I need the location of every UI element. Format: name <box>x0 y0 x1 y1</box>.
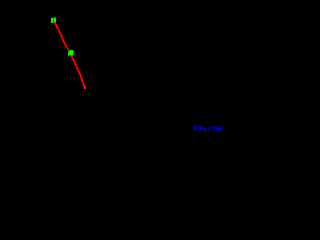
green marker 1 dark stripe <box>53 19 54 22</box>
crossbar bright left <box>200 128 203 129</box>
glyph f flag <box>199 126 200 127</box>
red endpoint blob <box>84 86 86 89</box>
tail dot <box>221 129 222 132</box>
green marker 2 <box>68 50 74 56</box>
blue caption <box>193 125 223 131</box>
bold blob <box>204 129 206 131</box>
green marker 1 bright columns <box>51 18 53 22</box>
slash <box>208 126 212 130</box>
green marker 2 bright core <box>70 51 74 55</box>
glyph X <box>193 125 197 130</box>
glyph 3 right blob <box>214 128 215 130</box>
glyph f vertical <box>200 125 201 130</box>
red trajectory staircase <box>53 21 86 89</box>
glyph 3 bottom bar <box>212 129 214 130</box>
green marker 2 dark corner <box>68 50 69 51</box>
descender <box>202 129 205 130</box>
tail faint <box>222 126 225 129</box>
vertical bar glyph <box>215 126 218 130</box>
crossbar dim <box>199 128 206 129</box>
crossbar bright right <box>203 128 205 129</box>
red overlap on marker 1 corner <box>54 22 56 23</box>
glyph 3 top bar <box>213 127 216 128</box>
glyph W <box>217 127 220 131</box>
green marker 1 <box>51 18 56 23</box>
glyph V <box>221 127 223 131</box>
